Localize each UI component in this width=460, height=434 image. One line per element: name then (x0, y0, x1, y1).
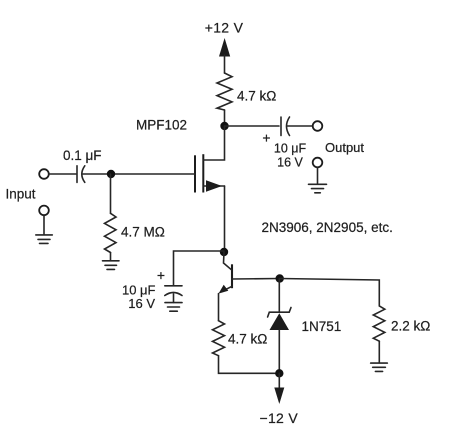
svg-text:4.7 kΩ: 4.7 kΩ (237, 89, 276, 104)
wire gate lead node B to gate (111, 173, 195, 175)
svg-text:16 V: 16 V (128, 296, 155, 311)
anode triangle (270, 313, 290, 330)
wire node A to output capacitor (225, 125, 280, 127)
svg-text:4.7 MΩ: 4.7 MΩ (121, 225, 165, 240)
ground under R4 (371, 363, 388, 371)
JFET U1 MPF102 (195, 126, 225, 193)
ground under R2 (103, 261, 120, 270)
gate bar (194, 155, 196, 192)
input ground terminal circle (39, 206, 49, 216)
input terminal circle (39, 169, 49, 179)
svg-text:−12 V: −12 V (260, 410, 299, 426)
capacitor C2 10 uF 16 V (output coupling) (281, 117, 290, 136)
wire input to C1 (49, 173, 76, 175)
output ground terminal circle (313, 158, 323, 168)
node A (drain node) (220, 122, 228, 130)
ground under C3 (165, 294, 182, 311)
wire node D down to zener (278, 279, 280, 312)
capacitor C1 0.1 uF (input coupling) (77, 166, 85, 183)
capacitor C3 10 uF 16 V (bypass) (165, 286, 182, 296)
wire node B down to R2 (110, 174, 112, 213)
svg-text:4.7 kΩ: 4.7 kΩ (228, 332, 267, 347)
wire C2 to output terminal (288, 125, 313, 127)
resistor R2 4.7 MOhm (gate bias) (105, 213, 117, 252)
base bar (231, 264, 233, 288)
svg-text:+: + (157, 267, 165, 283)
transistor Q2 PNP (219, 252, 280, 321)
ground under output terminal (309, 167, 327, 193)
wire R3 bottom to node E (219, 356, 280, 374)
svg-text:Input: Input (6, 187, 36, 202)
svg-text:+: + (262, 130, 270, 146)
zener diode D1 1N751 (268, 308, 291, 374)
wire JFET source down to node C (224, 186, 226, 252)
anode lead (278, 330, 280, 373)
wire node C left to C3 (174, 251, 225, 285)
svg-text:+12 V: +12 V (205, 19, 244, 35)
wire R1 bottom to node A (224, 110, 226, 126)
svg-text:Output: Output (325, 140, 364, 155)
resistor R1 4.7 kOhm (drain load) (217, 73, 232, 110)
svg-text:16 V: 16 V (277, 156, 303, 170)
svg-text:2N3906, 2N2905, etc.: 2N3906, 2N2905, etc. (262, 220, 393, 235)
svg-text:MPF102: MPF102 (136, 118, 187, 133)
svg-text:1N751: 1N751 (302, 319, 342, 334)
svg-text:2.2 kΩ: 2.2 kΩ (391, 319, 430, 334)
+12 V arrow (219, 38, 230, 73)
resistor R3 4.7 kOhm (emitter) (213, 321, 225, 356)
collector wire down to R3 (218, 294, 220, 321)
svg-text:10 μF: 10 μF (274, 142, 307, 156)
node B (gate node) (107, 170, 115, 178)
output terminal circle (313, 121, 323, 131)
cathode bar with zener bends (268, 308, 291, 318)
svg-text:0.1 μF: 0.1 μF (63, 148, 102, 163)
base lead to node D (232, 278, 280, 281)
node E (negative rail node) (275, 369, 283, 377)
collector lead with arrow (221, 286, 232, 292)
emitter lead from node C (224, 252, 232, 270)
source arrow (206, 180, 222, 192)
drain lead (203, 126, 224, 160)
wire C1 to node B (83, 173, 111, 175)
node C (source / emitter node) (220, 248, 228, 256)
wire R2 to ground (110, 253, 112, 261)
wire node D to R4 (280, 279, 380, 306)
channel bar (202, 154, 204, 192)
source lead (203, 185, 224, 187)
wire R4 to ground (378, 341, 380, 363)
node D (base / zener node) (276, 274, 284, 282)
ground under input terminal (36, 215, 53, 243)
resistor R4 2.2 kOhm (373, 306, 385, 341)
-12 V arrow (274, 373, 284, 404)
